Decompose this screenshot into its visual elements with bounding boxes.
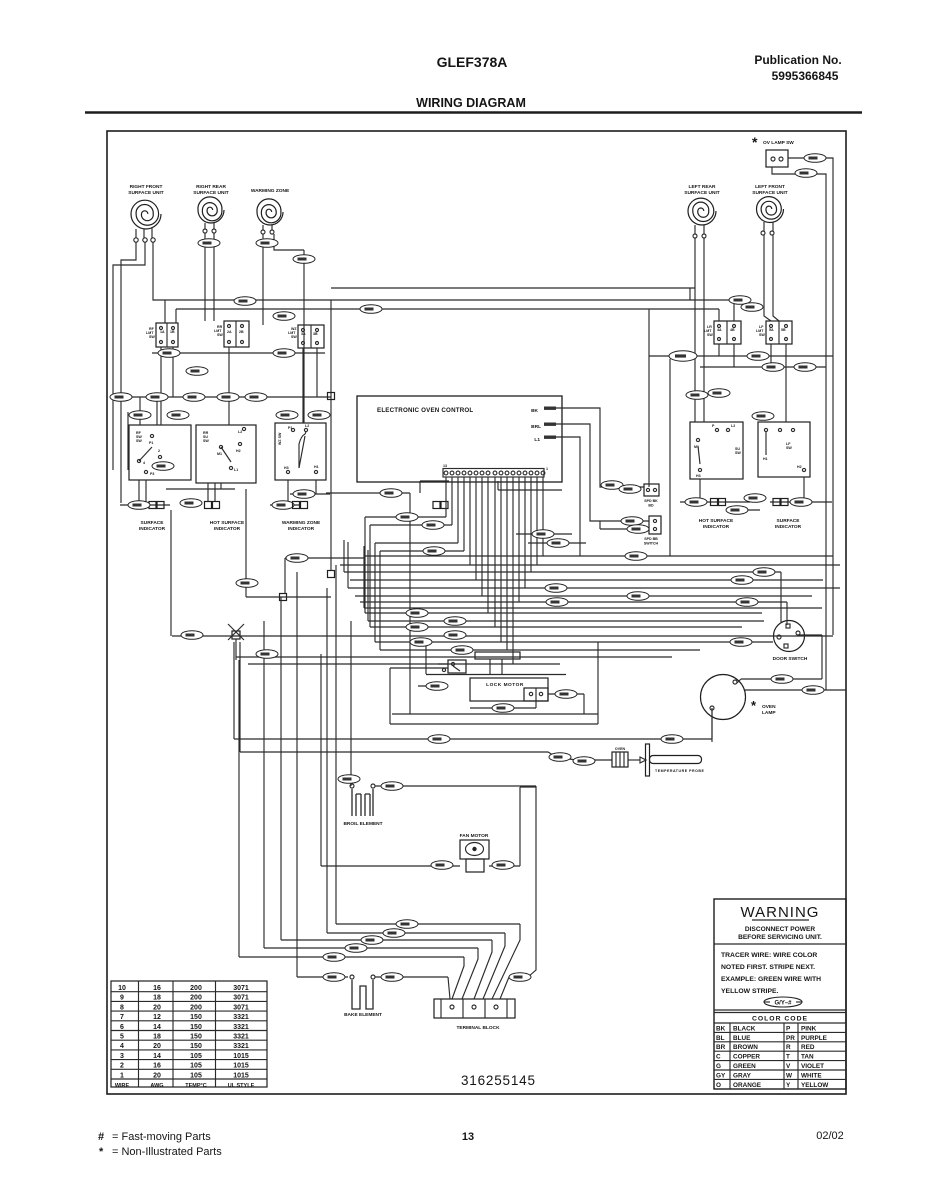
wire connector	[256, 239, 278, 248]
svg-text:L2: L2	[238, 430, 242, 434]
wire connector	[152, 462, 174, 471]
svg-text:4: 4	[120, 1043, 124, 1050]
svg-text:EXAMPLE: GREEN WIRE WITH: EXAMPLE: GREEN WIRE WITH	[721, 976, 821, 983]
broil feed wires	[375, 786, 536, 922]
limit switch RR	[214, 321, 249, 347]
svg-text:SW: SW	[203, 439, 209, 443]
svg-text:GLEF378A: GLEF378A	[437, 54, 508, 70]
svg-text:INDICATOR: INDICATOR	[288, 526, 315, 532]
U1 pin header P1-P17	[443, 469, 545, 478]
wire connector	[736, 598, 758, 607]
svg-text:3071: 3071	[233, 1004, 249, 1011]
svg-text:1015: 1015	[233, 1063, 249, 1070]
wire connector	[451, 646, 473, 655]
warming zone coil	[251, 188, 290, 234]
svg-text:BK: BK	[531, 408, 538, 414]
svg-text:SW: SW	[149, 335, 155, 339]
wire: WZ right drop column	[303, 250, 305, 423]
svg-text:V: V	[786, 1063, 791, 1070]
node column vertical x331	[330, 300, 332, 570]
color code table text	[716, 1025, 829, 1088]
svg-text:20: 20	[153, 1043, 161, 1050]
svg-text:GREEN: GREEN	[733, 1063, 756, 1070]
svg-text:SURFACE UNIT: SURFACE UNIT	[752, 190, 788, 196]
wire connector	[381, 782, 403, 791]
wire connector	[444, 617, 466, 626]
wire connector	[396, 513, 418, 522]
warming zone indicator block	[275, 423, 326, 480]
terminal block TB1	[434, 999, 515, 1031]
wire gauge table text	[115, 985, 255, 1089]
oven lamp switch S1	[752, 134, 794, 167]
door switch wires	[712, 635, 846, 742]
svg-text:GRAY: GRAY	[733, 1072, 752, 1079]
surface indicator label (left)	[139, 520, 166, 532]
U1 terminal BK	[531, 407, 556, 415]
svg-text:16: 16	[153, 1063, 161, 1070]
wire: top bus N	[176, 309, 719, 323]
svg-text:2: 2	[120, 1063, 124, 1070]
wire connector	[802, 686, 824, 695]
wire: LR coil drops	[695, 238, 704, 422]
surface unit coil: right front	[128, 184, 164, 242]
wire connector	[286, 554, 308, 563]
wire connector	[181, 631, 203, 640]
svg-text:ORANGE: ORANGE	[733, 1082, 762, 1089]
svg-text:SW: SW	[217, 333, 223, 337]
svg-text:3071: 3071	[233, 985, 249, 992]
wire connector	[741, 303, 763, 312]
wire connector	[245, 393, 267, 402]
oven lamp bottom run	[234, 642, 712, 739]
svg-text:O: O	[716, 1082, 721, 1089]
svg-text:2: 2	[158, 449, 160, 453]
svg-text:150: 150	[190, 1024, 202, 1031]
svg-text:COLOR CODE: COLOR CODE	[752, 1016, 808, 1023]
svg-text:105: 105	[190, 1053, 202, 1060]
wire connector	[762, 363, 784, 372]
svg-text:M1: M1	[217, 452, 222, 456]
svg-text:BLACK: BLACK	[733, 1025, 756, 1032]
svg-text:WARNING: WARNING	[741, 904, 820, 921]
svg-text:1015: 1015	[233, 1053, 249, 1060]
wire connector	[685, 498, 707, 507]
svg-text:UL STYLE: UL STYLE	[228, 1083, 255, 1089]
wire connector	[547, 539, 569, 548]
svg-text:13: 13	[462, 1131, 474, 1143]
svg-text:P: P	[786, 1025, 791, 1032]
svg-text:BK: BK	[716, 1025, 726, 1032]
svg-text:Publication No.: Publication No.	[754, 53, 841, 67]
svg-text:5B: 5B	[781, 328, 786, 332]
junction square A	[328, 393, 335, 400]
lower band rows	[239, 924, 520, 977]
svg-text:105: 105	[190, 1063, 202, 1070]
wire connector	[771, 675, 793, 684]
wire: limit sw to indicator drops left	[152, 347, 325, 425]
wire: RF coil drops	[113, 242, 165, 397]
wire connector	[747, 352, 769, 361]
wire: indicator cluster left	[120, 480, 410, 505]
wire connector	[345, 944, 367, 953]
terminal block fan-in diagonals	[448, 922, 536, 999]
svg-text:LAMP: LAMP	[762, 710, 776, 716]
svg-text:1B: 1B	[170, 330, 175, 334]
wire: WZ coil drops	[263, 234, 304, 325]
svg-text:W: W	[786, 1072, 793, 1079]
U1 terminal L1	[534, 436, 556, 444]
wire connector	[276, 411, 298, 420]
svg-text:WIRE: WIRE	[115, 1083, 130, 1089]
svg-text:OV LAMP SW: OV LAMP SW	[763, 140, 794, 146]
wire connector	[180, 499, 202, 508]
part number 316255145	[461, 1073, 536, 1088]
wire: EOC L1 route	[516, 437, 586, 556]
svg-text:H3: H3	[284, 466, 289, 470]
svg-text:02/02: 02/02	[816, 1130, 844, 1142]
limit switch LF	[756, 321, 792, 344]
svg-text:L1: L1	[534, 437, 540, 443]
limit switch LR	[704, 321, 741, 344]
svg-text:C: C	[716, 1054, 721, 1061]
svg-text:VIOLET: VIOLET	[801, 1063, 824, 1070]
svg-text:H1: H1	[314, 465, 319, 469]
limit switch RF	[146, 323, 178, 347]
footer date	[816, 1130, 844, 1142]
wire connector	[619, 485, 641, 494]
svg-text:SW: SW	[707, 333, 713, 337]
svg-text:SURFACE UNIT: SURFACE UNIT	[128, 190, 164, 196]
svg-text:150: 150	[190, 1043, 202, 1050]
pin drop jogs	[365, 481, 562, 650]
wire: limit sw drops right	[690, 288, 786, 422]
svg-text:= Non-Illustrated Parts: = Non-Illustrated Parts	[112, 1146, 222, 1158]
svg-text:L1: L1	[234, 468, 238, 472]
junction square D with crossover	[228, 624, 244, 660]
svg-text:8: 8	[120, 1004, 124, 1011]
svg-text:P1: P1	[149, 441, 153, 445]
svg-text:OVEN: OVEN	[615, 747, 626, 751]
wire connector	[545, 584, 567, 593]
wire connector	[128, 501, 150, 510]
wire connector	[406, 609, 428, 618]
surface indicator lamp block (left)	[129, 425, 191, 480]
wire connector	[804, 154, 826, 163]
wire connector	[406, 623, 428, 632]
svg-text:18: 18	[153, 995, 161, 1002]
wire connector	[729, 296, 751, 305]
terminal squares cluster	[149, 499, 788, 509]
svg-text:WARMING ZONE: WARMING ZONE	[282, 520, 321, 526]
wire connector	[428, 735, 450, 744]
spd bk board	[644, 484, 659, 508]
lock motor M2 assembly	[426, 652, 566, 701]
temperature probe RT1	[612, 744, 704, 776]
hot surface indicator label (left)	[210, 520, 245, 532]
svg-text:*: *	[99, 1146, 104, 1158]
wire connector	[555, 690, 577, 699]
svg-text:3321: 3321	[233, 1034, 249, 1041]
svg-text:H1: H1	[763, 457, 768, 461]
svg-text:SPD BK: SPD BK	[644, 499, 658, 503]
hot surface indicator block (left)	[196, 425, 256, 483]
svg-text:SURFACE UNIT: SURFACE UNIT	[193, 190, 229, 196]
wire connector	[273, 349, 295, 358]
svg-text:LEFT REAR: LEFT REAR	[689, 184, 716, 190]
svg-text:3071: 3071	[233, 995, 249, 1002]
heading WIRING DIAGRAM	[416, 96, 526, 110]
wire connector	[217, 393, 239, 402]
svg-text:20: 20	[153, 1072, 161, 1079]
wire connector	[573, 757, 595, 766]
wire connector	[744, 494, 766, 503]
wire connector	[158, 349, 180, 358]
svg-text:BL: BL	[716, 1035, 725, 1042]
nest left verticals	[113, 397, 365, 636]
nest horizontal wires	[172, 540, 840, 664]
wire connector	[492, 861, 514, 870]
wire connector	[731, 576, 753, 585]
svg-text:SW: SW	[735, 451, 741, 455]
wire: top bus L1	[165, 300, 734, 323]
svg-text:BROIL ELEMENT: BROIL ELEMENT	[343, 821, 382, 827]
svg-text:1A: 1A	[160, 330, 165, 334]
wire: oven lamp sw to right runner	[772, 158, 833, 690]
hot surface indicator label (right)	[699, 518, 734, 530]
wire: EOC BRL route	[556, 424, 649, 529]
electronic oven control U1	[357, 396, 562, 482]
svg-text:FAN MOTOR: FAN MOTOR	[460, 833, 489, 839]
svg-text:GY: GY	[716, 1072, 726, 1079]
svg-text:R: R	[786, 1044, 791, 1051]
svg-text:G/Y–#: G/Y–#	[774, 1001, 792, 1007]
svg-text:ELECTRONIC OVEN CONTROL: ELECTRONIC OVEN CONTROL	[377, 407, 473, 414]
svg-text:BR: BR	[716, 1044, 726, 1051]
bake element R2	[344, 975, 382, 1018]
bake right feed	[375, 976, 448, 978]
wire connector	[183, 393, 205, 402]
svg-text:105: 105	[190, 1072, 202, 1079]
svg-text:6: 6	[120, 1024, 124, 1031]
svg-text:WHITE: WHITE	[801, 1072, 822, 1079]
svg-text:TAN: TAN	[801, 1054, 814, 1061]
wire: indicator cluster right	[680, 477, 832, 510]
svg-text:G: G	[716, 1063, 721, 1070]
svg-text:12: 12	[153, 1014, 161, 1021]
svg-text:SW: SW	[759, 333, 765, 337]
U1 terminal BRL	[531, 423, 556, 431]
wire connector	[444, 631, 466, 640]
svg-text:RIGHT FRONT: RIGHT FRONT	[130, 184, 163, 190]
surface unit coil: left rear	[684, 184, 720, 238]
svg-text:13: 13	[443, 464, 447, 468]
svg-text:200: 200	[190, 995, 202, 1002]
svg-text:4A: 4A	[717, 328, 722, 332]
svg-text:PURPLE: PURPLE	[801, 1035, 828, 1042]
wire connector	[380, 489, 402, 498]
surface unit coil: right rear	[193, 184, 229, 233]
terminal square pair	[293, 502, 308, 509]
wire connector	[661, 735, 683, 744]
svg-text:H2: H2	[236, 449, 241, 453]
svg-text:LEFT FRONT: LEFT FRONT	[755, 184, 785, 190]
wire connector	[708, 389, 730, 398]
svg-text:316255145: 316255145	[461, 1073, 536, 1088]
wire connector	[686, 391, 708, 400]
svg-text:1015: 1015	[233, 1072, 249, 1079]
svg-text:DISCONNECT POWER: DISCONNECT POWER	[745, 926, 816, 933]
svg-text:4B: 4B	[730, 328, 735, 332]
wire connector	[410, 638, 432, 647]
svg-text:COPPER: COPPER	[733, 1054, 760, 1061]
hot surface indicator block (right)	[690, 422, 743, 479]
wire connector	[625, 552, 647, 561]
broil element R1	[343, 784, 382, 827]
svg-text:= Fast-moving Parts: = Fast-moving Parts	[112, 1131, 211, 1143]
svg-text:10: 10	[118, 985, 126, 992]
long verticals to lower band	[239, 565, 351, 977]
temperature probe run	[240, 642, 612, 760]
wire connector	[753, 568, 775, 577]
door switch S2	[773, 621, 808, 663]
big connector	[669, 351, 697, 361]
svg-text:#: #	[98, 1131, 104, 1143]
wire: EOC BK route	[556, 408, 644, 487]
wire connector	[381, 973, 403, 982]
svg-text:*: *	[752, 134, 758, 150]
svg-text:HOT SURFACE: HOT SURFACE	[699, 518, 734, 524]
svg-text:3321: 3321	[233, 1024, 249, 1031]
svg-text:INDICATOR: INDICATOR	[703, 524, 730, 530]
svg-text:2B: 2B	[239, 330, 244, 334]
wire connector	[431, 861, 453, 870]
svg-text:BD: BD	[648, 504, 654, 508]
wire connector	[422, 521, 444, 530]
wire: top bus L2	[331, 287, 695, 289]
wire connector	[426, 682, 448, 691]
svg-text:TEMP°C: TEMP°C	[185, 1083, 206, 1089]
svg-text:WARMING ZONE: WARMING ZONE	[251, 188, 290, 194]
svg-text:LOCK MOTOR: LOCK MOTOR	[486, 682, 524, 688]
svg-text:YELLOW: YELLOW	[801, 1082, 829, 1089]
wire connector	[338, 775, 360, 784]
wire: right oval bus rows	[649, 309, 833, 556]
svg-text:14: 14	[153, 1053, 161, 1060]
junction square C	[280, 594, 287, 601]
wire connector	[601, 481, 623, 490]
fan motor M1	[460, 833, 489, 872]
wire gauge table	[111, 981, 267, 1087]
svg-text:SURFACE UNIT: SURFACE UNIT	[684, 190, 720, 196]
svg-text:5: 5	[120, 1034, 124, 1041]
svg-text:14: 14	[153, 1024, 161, 1031]
wire connector	[236, 579, 258, 588]
wire connector	[492, 704, 514, 713]
title GLEF378A	[437, 54, 508, 70]
svg-text:L2: L2	[305, 424, 309, 428]
wire connector	[308, 411, 330, 420]
svg-text:SW: SW	[786, 446, 792, 450]
junction square B	[328, 571, 335, 578]
surface indicator block (right)	[758, 422, 810, 477]
svg-text:200: 200	[190, 1004, 202, 1011]
svg-text:L2: L2	[731, 424, 735, 428]
svg-text:9: 9	[120, 995, 124, 1002]
svg-text:1: 1	[546, 467, 548, 471]
wire connector	[627, 525, 649, 534]
svg-text:Y: Y	[786, 1082, 791, 1089]
svg-text:1: 1	[120, 1072, 124, 1079]
wire connector	[423, 547, 445, 556]
surface unit coil: left front	[752, 184, 788, 235]
wire connector	[293, 255, 315, 264]
wire connector	[730, 638, 752, 647]
svg-text:3B: 3B	[313, 332, 318, 336]
wire connector	[532, 530, 554, 539]
wire connector	[752, 412, 774, 421]
svg-text:16: 16	[153, 985, 161, 992]
svg-text:INDICATOR: INDICATOR	[775, 524, 802, 530]
surface indicator label (right)	[775, 518, 802, 530]
wire: RR coil drops	[205, 233, 214, 321]
wire connector	[110, 393, 132, 402]
svg-text:4: 4	[143, 461, 145, 465]
svg-text:3: 3	[120, 1053, 124, 1060]
publication no label	[754, 53, 841, 83]
wire connector	[129, 411, 151, 420]
svg-text:DOOR SWITCH: DOOR SWITCH	[773, 656, 808, 662]
wire connector	[621, 517, 643, 526]
svg-text:RED: RED	[801, 1044, 815, 1051]
diagram border frame	[107, 131, 846, 1094]
svg-text:NOTED FIRST. STRIPE NEXT.: NOTED FIRST. STRIPE NEXT.	[721, 964, 815, 971]
warming zone indicator label	[282, 520, 321, 532]
wire connector	[794, 363, 816, 372]
svg-text:OVEN: OVEN	[762, 704, 776, 710]
wire connector	[360, 305, 382, 314]
svg-text:SW: SW	[136, 439, 142, 443]
svg-text:BLUE: BLUE	[733, 1035, 751, 1042]
wire connector	[293, 490, 315, 499]
color code table	[714, 1010, 846, 1089]
wire connector	[256, 650, 278, 659]
svg-text:5A: 5A	[769, 328, 774, 332]
svg-text:SPD BB: SPD BB	[644, 537, 658, 541]
svg-text:20: 20	[153, 1004, 161, 1011]
svg-text:P3: P3	[150, 472, 154, 476]
footer fast-moving parts legend	[98, 1131, 222, 1158]
svg-text:BAKE ELEMENT: BAKE ELEMENT	[344, 1012, 382, 1018]
svg-text:5995366845: 5995366845	[772, 69, 839, 83]
wire connector	[198, 239, 220, 248]
fan motor wires	[321, 787, 520, 866]
svg-text:BEFORE SERVICING UNIT.: BEFORE SERVICING UNIT.	[738, 934, 822, 941]
wire connector	[167, 411, 189, 420]
wire connector	[795, 169, 817, 178]
tracer wire example connector G/Y	[764, 997, 802, 1007]
svg-text:18: 18	[153, 1034, 161, 1041]
wire connector	[234, 297, 256, 306]
svg-text:7: 7	[120, 1014, 124, 1021]
svg-text:3321: 3321	[233, 1014, 249, 1021]
svg-text:RIGHT REAR: RIGHT REAR	[196, 184, 226, 190]
svg-text:150: 150	[190, 1034, 202, 1041]
footer page number	[462, 1131, 474, 1143]
wire connector	[383, 929, 405, 938]
wire connector	[509, 973, 531, 982]
wire connector	[549, 753, 571, 762]
svg-text:H2: H2	[797, 465, 802, 469]
